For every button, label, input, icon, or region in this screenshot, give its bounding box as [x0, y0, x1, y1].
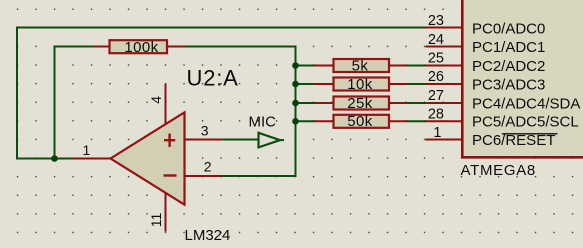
- node: junction bus/50k: [292, 118, 299, 125]
- chip body: [463, 0, 583, 157]
- svg-text:26: 26: [428, 69, 444, 85]
- resistor 25k: [315, 95, 408, 112]
- wire: 25k right to pin 27: [407, 102, 426, 104]
- wire: bus to 5k: [296, 65, 316, 67]
- svg-text:U2:A: U2:A: [187, 65, 239, 90]
- op-amp minus symbol: [164, 174, 177, 176]
- wire: bus to 10k: [296, 83, 316, 85]
- op-amp pin 4 power lead: [165, 84, 167, 124]
- pin 27 lead: [426, 102, 462, 104]
- node: junction on output wire: [51, 155, 58, 162]
- svg-text:1: 1: [83, 142, 91, 158]
- op-amp pin 3 lead: [185, 139, 223, 141]
- op-amp pin 11 power lead: [165, 193, 167, 232]
- svg-text:ATMEGA8: ATMEGA8: [461, 162, 536, 179]
- resistor 50k: [315, 113, 408, 130]
- svg-text:PC1/ADC1: PC1/ADC1: [472, 39, 545, 56]
- svg-text:MIC: MIC: [249, 113, 277, 130]
- wire: bus to 25k: [296, 102, 316, 104]
- wire: bus to 50k: [296, 120, 316, 122]
- pin 1 lead: [426, 139, 462, 141]
- svg-text:5k: 5k: [352, 57, 369, 74]
- wire: feedback branch from output node up to 100k left: [55, 47, 94, 159]
- wire: 5k right to pin 25: [407, 65, 426, 67]
- op-amp plus symbol: [164, 139, 175, 141]
- svg-text:4: 4: [148, 96, 164, 104]
- resistor 100k: [94, 39, 186, 56]
- pin 26 lead: [426, 83, 462, 85]
- pin 25 lead: [426, 65, 462, 67]
- wire: 100k right to summing bus down to pin2: [186, 47, 296, 177]
- op-amp output pin 1 wire: [72, 158, 111, 160]
- svg-text:50k: 50k: [347, 113, 372, 130]
- svg-text:10k: 10k: [347, 76, 372, 93]
- svg-text:2: 2: [204, 158, 212, 174]
- wire: 50k right to pin 28: [407, 120, 426, 122]
- svg-text:PC6/RESET: PC6/RESET: [472, 132, 555, 149]
- svg-text:3: 3: [201, 123, 209, 139]
- node: junction bus/25k: [292, 100, 299, 107]
- node: junction bus/10k: [292, 81, 299, 88]
- svg-text:25: 25: [428, 51, 444, 67]
- MIC input terminal: [249, 113, 285, 147]
- svg-text:28: 28: [428, 107, 444, 123]
- svg-text:LM324: LM324: [185, 227, 231, 244]
- svg-text:27: 27: [428, 88, 444, 104]
- op-amp body: [111, 112, 185, 204]
- svg-text:PC3/ADC3: PC3/ADC3: [472, 76, 545, 93]
- pin 24 lead: [426, 46, 462, 48]
- svg-text:PC2/ADC2: PC2/ADC2: [472, 58, 545, 75]
- svg-text:24: 24: [428, 32, 444, 48]
- svg-text:23: 23: [428, 13, 444, 29]
- svg-text:PC4/ADC4/SDA: PC4/ADC4/SDA: [472, 95, 580, 112]
- wire: op-amp pin3 to MIC terminal: [222, 139, 259, 141]
- wire net: op-amp output to PC0 (top frame): [17, 28, 426, 159]
- resistor 5k: [315, 57, 408, 74]
- pin 28 lead: [426, 120, 462, 122]
- pin 23 lead: [426, 27, 462, 29]
- svg-text:1: 1: [433, 125, 441, 141]
- svg-text:25k: 25k: [347, 95, 372, 112]
- svg-text:PC0/ADC0: PC0/ADC0: [472, 20, 545, 37]
- svg-text:11: 11: [148, 213, 164, 228]
- node: junction bus/5k: [292, 62, 299, 69]
- wire: 10k right to pin 26: [407, 83, 426, 85]
- svg-text:100k: 100k: [124, 39, 158, 56]
- op-amp pin 2 lead: [185, 175, 223, 177]
- resistor 10k: [315, 76, 408, 93]
- svg-text:PC5/ADC5/SCL: PC5/ADC5/SCL: [472, 114, 579, 131]
- op-amp U2:A: [72, 65, 239, 243]
- IC U? ATMEGA8: [426, 0, 583, 179]
